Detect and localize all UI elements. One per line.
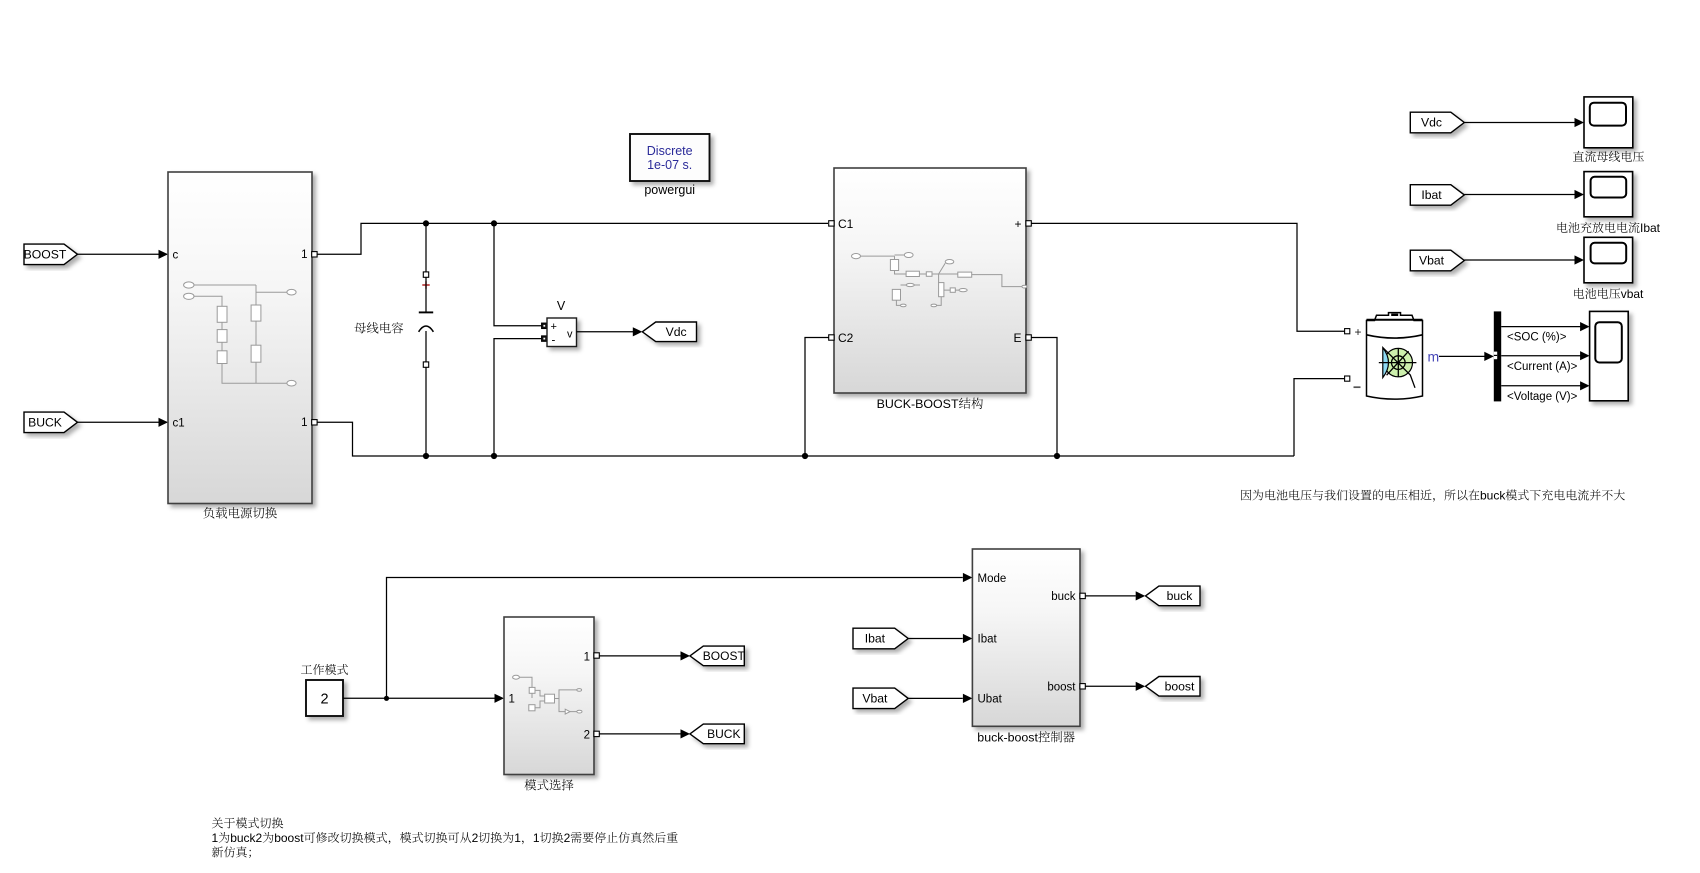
svg-text:1: 1 xyxy=(584,651,590,663)
svg-text:Vdc: Vdc xyxy=(666,325,687,339)
wire constant to junction xyxy=(343,697,495,699)
svg-text:+: + xyxy=(1014,217,1021,231)
svg-text:1: 1 xyxy=(509,693,515,705)
port square plus xyxy=(1026,221,1031,226)
svg-text:v: v xyxy=(567,329,573,341)
voltage sensor V xyxy=(547,318,577,347)
svg-text:Ibat: Ibat xyxy=(1640,221,1661,235)
svg-text:buck2: buck2 xyxy=(230,831,262,845)
wire out2 to BUCK goto xyxy=(599,733,681,735)
svg-text:BOOST: BOOST xyxy=(703,649,746,663)
svg-text:2: 2 xyxy=(564,831,571,845)
label 电池充放电电流Ibat xyxy=(1558,222,1640,233)
wire to V- input xyxy=(494,339,542,456)
wire junction to Mode xyxy=(387,578,963,699)
wire buck to goto xyxy=(1085,595,1136,597)
svg-text:2: 2 xyxy=(472,831,479,845)
battery block xyxy=(1345,329,1350,334)
svg-text:<Current (A)>: <Current (A)> xyxy=(1507,361,1578,373)
bus out Voltage wire xyxy=(1501,385,1580,387)
svg-text:buck: buck xyxy=(1167,589,1194,603)
label 直流母线电压 xyxy=(1573,151,1644,162)
wire boost to goto xyxy=(1085,685,1136,687)
svg-text:BUCK-BOOST: BUCK-BOOST xyxy=(877,397,959,411)
label 母线电容 xyxy=(354,322,403,333)
svg-text:buck: buck xyxy=(1051,591,1076,603)
port square C1 xyxy=(829,221,834,226)
svg-text:powergui: powergui xyxy=(644,183,695,197)
wire output1b to bottom bus xyxy=(317,422,1294,456)
svg-text:Ibat: Ibat xyxy=(978,633,998,645)
scope 电池电压vbat xyxy=(1584,237,1633,282)
wire m to bus selector xyxy=(1439,355,1485,357)
svg-text:C2: C2 xyxy=(838,331,854,345)
svg-text:V: V xyxy=(557,299,566,313)
junction dot D xyxy=(491,453,497,459)
port square C2 xyxy=(829,335,834,340)
svg-text:1: 1 xyxy=(301,249,307,261)
output port square 1 bottom xyxy=(312,420,317,425)
junction dot C xyxy=(423,453,429,459)
svg-text:1: 1 xyxy=(212,831,219,845)
V+ port square xyxy=(542,323,547,328)
junction dot F xyxy=(1054,453,1060,459)
svg-text:1: 1 xyxy=(301,417,307,429)
svg-text:1e-07 s.: 1e-07 s. xyxy=(647,158,692,172)
svg-text:BUCK: BUCK xyxy=(707,727,740,741)
label 工作模式 xyxy=(301,664,348,675)
powergui block xyxy=(630,134,710,181)
svg-text:<Voltage (V)>: <Voltage (V)> xyxy=(1507,391,1578,403)
svg-text:Vbat: Vbat xyxy=(1419,254,1445,268)
label 模式选择 xyxy=(525,779,574,790)
annotation mode switching title xyxy=(212,817,283,828)
模式选择 preview circuit xyxy=(513,675,582,714)
port square out2 xyxy=(594,731,599,736)
goto tag BUCK xyxy=(690,724,744,744)
svg-text:m: m xyxy=(1428,348,1440,364)
svg-text:boost: boost xyxy=(1165,679,1195,693)
wire BUCK to c1 xyxy=(78,421,168,423)
junction dot G xyxy=(384,696,389,701)
wire v to Vdc goto xyxy=(577,331,634,333)
wire Ibat to controller xyxy=(908,638,963,640)
svg-text:E: E xyxy=(1013,331,1021,345)
junction dot B xyxy=(491,220,497,226)
svg-text:-: - xyxy=(552,335,556,347)
svg-text:1: 1 xyxy=(514,831,521,845)
svg-text:Ibat: Ibat xyxy=(1421,188,1442,202)
svg-text:+: + xyxy=(1355,325,1362,339)
wire Vdc to scope xyxy=(1464,122,1574,124)
wire output1 to top bus xyxy=(317,223,828,254)
svg-text:Ubat: Ubat xyxy=(978,694,1003,706)
svg-text:Mode: Mode xyxy=(978,573,1007,585)
bus out Current wire xyxy=(1501,355,1580,357)
goto tag Vdc xyxy=(642,322,696,342)
capacitor 母线电容 xyxy=(425,223,427,272)
wire battery minus to bus xyxy=(1294,379,1344,456)
subsystem 模式选择 xyxy=(504,617,594,775)
svg-text:Vdc: Vdc xyxy=(1421,116,1442,130)
scope battery xyxy=(1590,311,1629,400)
annotation buck mode note xyxy=(1241,489,1479,501)
wire C2 down xyxy=(805,338,829,457)
output port square 1 top xyxy=(312,252,317,257)
goto tag buck xyxy=(1146,586,1201,606)
annotation mode switching line3 xyxy=(212,846,251,858)
svg-text:c1: c1 xyxy=(173,417,185,429)
BUCK-BOOST preview circuit xyxy=(852,253,1027,307)
svg-text:BOOST: BOOST xyxy=(24,247,67,261)
scope 直流母线电压 xyxy=(1584,97,1633,148)
port square E xyxy=(1026,335,1031,340)
svg-text:2: 2 xyxy=(584,730,590,742)
from tag BUCK xyxy=(24,412,78,433)
wire to V+ input xyxy=(494,223,542,325)
scope 电池充放电电流Ibat xyxy=(1584,172,1633,217)
junction dot A xyxy=(423,220,429,226)
svg-text:buck: buck xyxy=(1480,489,1506,503)
svg-text:boost: boost xyxy=(274,831,304,845)
port square buck out xyxy=(1080,593,1085,598)
svg-text:<SOC (%)>: <SOC (%)> xyxy=(1507,331,1567,343)
svg-text:c: c xyxy=(173,249,179,261)
from tag Vbat 2 xyxy=(853,688,908,709)
subsystem 1 preview circuit xyxy=(184,282,297,386)
from tag Vdc xyxy=(1410,112,1464,133)
wire BOOST to c xyxy=(78,253,168,255)
subsystem buck-boost控制器 xyxy=(972,549,1080,726)
svg-text:boost: boost xyxy=(1047,682,1076,694)
port square out1 xyxy=(594,653,599,658)
svg-text:1: 1 xyxy=(533,831,540,845)
svg-text:+: + xyxy=(551,321,557,333)
from tag Ibat 2 xyxy=(853,628,908,649)
from tag Vbat xyxy=(1410,250,1464,271)
svg-text:buck-boost: buck-boost xyxy=(977,731,1038,745)
svg-text:Discrete: Discrete xyxy=(647,144,693,158)
subsystem BUCK-BOOST结构 xyxy=(834,168,1026,393)
svg-text:vbat: vbat xyxy=(1621,287,1644,301)
label 电池电压vbat xyxy=(1574,288,1620,299)
subsystem 负载电源切换 xyxy=(168,172,312,504)
wire plus to battery xyxy=(1031,223,1344,331)
bus selector bar xyxy=(1494,311,1501,401)
port square boost out xyxy=(1080,684,1085,689)
constant block 2 xyxy=(306,680,343,716)
wire Vbat to controller xyxy=(908,697,963,699)
svg-text:Vbat: Vbat xyxy=(862,692,888,706)
junction dot E xyxy=(802,453,808,459)
svg-text:Ibat: Ibat xyxy=(865,632,886,646)
wire Vbat to scope xyxy=(1464,259,1574,261)
from tag BOOST xyxy=(24,244,78,265)
svg-text:2: 2 xyxy=(320,691,328,707)
wire E down xyxy=(1031,338,1057,457)
svg-text:BUCK: BUCK xyxy=(28,415,62,429)
V- port square xyxy=(542,336,547,341)
bus out SOC wire xyxy=(1501,326,1580,328)
goto tag BOOST xyxy=(690,646,746,666)
label 负载电源切换 xyxy=(203,507,277,519)
from tag Ibat xyxy=(1410,185,1464,206)
wire Ibat to scope xyxy=(1464,194,1574,196)
svg-text:C1: C1 xyxy=(838,217,854,231)
wire out1 to BOOST goto xyxy=(599,655,681,657)
goto tag boost xyxy=(1146,677,1201,697)
